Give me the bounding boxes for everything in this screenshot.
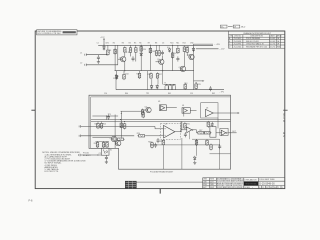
title block approvals text [203,179,215,189]
wire dropper x158 [157,79,159,84]
wire feedback riser [180,122,182,132]
wire dropper x147.4 [146,71,148,90]
capacitor C6 [107,115,110,120]
resistor R34 [96,141,99,148]
wire Q1 collector riser [124,52,126,56]
resistor R16 [150,72,153,79]
wire x184.4 to Q3 [186,53,188,56]
input stub line 3 [80,154,101,156]
node top rail x104 [103,45,104,46]
top-left document return box [37,30,77,35]
resistor R14 below rail [123,73,126,80]
svg-text:25: 25 [262,187,264,189]
wire x130.5 riser [130,45,132,46]
resistor R10 [171,52,174,59]
opamp U3 box [160,105,167,111]
svg-text:CHGD R21 WAS 4.7K: CHGD R21 WAS 4.7K [246,43,265,46]
wire riser x156.5 top [156,45,158,49]
svg-text:T1: T1 [164,82,166,84]
resistor R4 [129,47,132,54]
svg-text:R3: R3 [122,43,124,45]
svg-text:59: 59 [266,187,268,189]
svg-text:APVD: APVD [277,35,283,38]
resistor R19 [195,83,198,90]
resistor R8 [155,50,158,57]
zone tick left border [31,109,35,111]
wire top supply rail [98,44,213,46]
diode CR9 [194,156,197,161]
svg-text:J2: J2 [80,63,82,65]
svg-text:R4: R4 [129,43,131,45]
wire x135.8 riser [135,45,137,46]
svg-text:U5: U5 [165,124,167,126]
wire bias rail y144.9 [150,144,220,146]
node top rail x141.2 [141,45,142,46]
wire CR5 top [116,71,118,75]
resistor R11 [177,47,180,54]
svg-text:Q5: Q5 [145,107,147,109]
svg-text:Q3: Q3 [179,67,181,69]
resistor R33 [206,139,209,146]
svg-text:1: 1 [278,187,279,189]
svg-text:1: 1 [282,187,283,189]
svg-text:9-2-69: 9-2-69 [270,41,275,43]
transistor Q1 [121,57,126,62]
svg-text:59: 59 [234,27,237,29]
opamp U5 main [164,125,175,138]
wire supply stub V+ [103,39,105,46]
connector J2 marks [85,64,87,67]
wire riser x193.5 [193,44,195,90]
svg-text:P/O A2 ATTENUATOR ASSY: P/O A2 ATTENUATOR ASSY [150,171,174,174]
svg-text:PROD RELEASE: PROD RELEASE [246,37,261,40]
svg-text:TP2: TP2 [146,93,149,95]
strip line from stamp to title block [137,181,203,183]
svg-text:Q1: Q1 [119,57,121,59]
drawing border frame [35,31,285,189]
svg-text:R11: R11 [176,43,179,45]
centering tick bottom border [159,189,161,194]
title block outline [203,178,285,189]
revision table [229,31,285,48]
ground below C1 [97,60,100,63]
svg-text:Q2: Q2 [157,59,159,61]
resistor R38 [120,122,123,129]
connector mark input 3 [79,154,81,157]
svg-text:25-11990: 25-11990 [234,44,241,46]
svg-text:25-12344: 25-12344 [234,47,242,49]
svg-text:R27: R27 [199,130,202,132]
opamp U4 box [182,108,190,114]
svg-text:Q4: Q4 [187,54,189,56]
wire drop x219.6 [219,139,221,169]
wire input line 2 [86,64,118,66]
wire branch y139.2 [192,138,220,140]
wire riser x159.2 top [158,45,160,49]
svg-text:CR4: CR4 [190,43,193,45]
wire branch y116 [92,115,118,117]
buffer U8 [220,128,228,135]
node rail x124.6 [124,121,125,122]
resistor R37 [210,144,213,151]
diode CR7 [156,84,159,89]
node y111.2 [121,113,122,114]
svg-text:R15: R15 [136,74,139,76]
svg-text:D-25-5948-00: D-25-5948-00 [259,182,275,185]
inductor bump 2 [169,85,172,90]
wire riser x172.6 [172,45,174,70]
resistor R25 [142,111,145,118]
wire R14 leads [123,71,125,74]
diode CR1 [103,46,106,51]
resistor R28 horizontal [203,132,211,134]
shield box outline outer [89,95,231,169]
svg-text:220: 220 [143,49,146,51]
wire drop x121.3 [120,111,122,138]
resistor R2 [114,48,117,55]
wire U6 output long [213,112,239,114]
svg-text:C15: C15 [190,93,193,95]
svg-text:TP3: TP3 [108,114,111,116]
transistor Q3 [180,66,185,71]
svg-text:CR1: CR1 [105,43,108,45]
node U5 out [180,131,181,132]
transistor Q4 [189,54,194,59]
wire bump feeds [166,84,168,86]
wire mid rail A [91,119,231,121]
svg-text:C3: C3 [162,43,164,45]
wire branch y111.2 [121,110,144,112]
capacitor C11 [105,155,108,160]
resistor R7 [149,47,152,54]
company logo block [244,181,258,185]
svg-text:J1: J1 [80,53,82,55]
svg-text:R17: R17 [159,74,162,76]
wire U3 out [166,107,177,109]
component ref labels upper row [97,43,201,87]
wire dropper x162.5 [162,71,164,85]
wire Q2 base [156,61,159,63]
capacitor C8 [154,143,157,148]
wire riser x115 [114,45,116,70]
node rail x120.5 [120,119,121,120]
ground below C11 [105,161,108,164]
zone tick right border [283,109,287,111]
wire Q5 base [141,109,145,111]
svg-text:- TP1: - TP1 [220,92,224,94]
resistor R44 above A1 [207,121,210,128]
svg-text:HEWLETT·PACKARD: HEWLETT·PACKARD [245,183,258,186]
transistor Q2 [159,59,164,64]
svg-text:C1: C1 [97,43,99,45]
svg-text:R42: R42 [212,93,215,95]
title text underlay smudge [217,178,244,189]
wire R29 top [162,138,164,140]
node input line1 [120,126,121,127]
wire R21 R22 tops [97,121,99,124]
resistor R24 [141,109,144,116]
node bottom rail x124.8 [124,70,125,71]
svg-text:R18: R18 [184,83,187,85]
wire U6 box corner drop [217,118,219,128]
wire drop x115.1 [114,115,116,149]
svg-text:DOC CONTROL CTR 26U: DOC CONTROL CTR 26U [37,33,61,35]
capacitor C7 [157,138,160,143]
opamp U5 input signs [164,128,166,130]
svg-text:R6: R6 [139,43,141,45]
svg-text:R40: R40 [125,93,128,95]
wire drop x196.5 [196,139,198,156]
resistor R30 [151,142,154,149]
wire arrow y80.9 [194,80,204,82]
svg-text:R31: R31 [187,124,190,126]
connector mark input 1 [80,125,82,128]
inductor bump 3 [172,85,175,90]
svg-text:R10: R10 [170,43,173,45]
node rail x150.4 [150,45,151,46]
wire dropper x151.8 [151,79,153,84]
capacitor C13 above A1 [211,122,214,127]
svg-text:C14: C14 [104,93,107,95]
resistor R35 [102,141,105,148]
dashed guard ring around U5 [161,123,181,139]
resistor R23 horizontal [116,138,124,140]
resistor R5 [135,47,138,54]
connector J1 marks [85,53,87,56]
wire output line [229,132,237,134]
svg-text:R21: R21 [95,123,98,125]
opamp U3 [160,106,164,110]
svg-text:25-11038: 25-11038 [234,41,241,43]
svg-text:A1: A1 [211,124,213,127]
wire drop x181.9 [181,122,183,131]
node bottom rail x162.7 [162,70,163,71]
svg-text:6.2: 6.2 [167,47,169,49]
svg-text:CODE IDENT 28480: CODE IDENT 28480 [259,179,275,181]
wire x177.9 [177,45,179,47]
wire drop x106.6 [106,116,108,120]
wire U7 out [193,130,198,133]
svg-text:- +15V: - +15V [215,44,221,46]
svg-text:R19: R19 [198,84,201,86]
wire Q1 base [118,58,121,60]
node input 3 [97,154,98,155]
resistor R32 [195,139,198,146]
wire Q2 emitter [162,64,164,71]
svg-text:R22: R22 [103,123,106,125]
wire input1 bend to U5 [155,126,164,128]
resistor R31 [184,122,187,129]
diode CR2 [140,52,143,57]
svg-text:R26: R26 [137,133,140,135]
svg-text:CHANGE NOTIFICATION LIST: CHANGE NOTIFICATION LIST [243,32,272,35]
capacitor C3 [161,50,164,55]
wire branch y153.8 [210,153,231,155]
svg-text:LOVELAND DIV: LOVELAND DIV [244,179,257,182]
microfilm marks above top border [220,25,227,28]
capacitor C2 [132,56,135,61]
capacitor C4 [176,56,179,61]
resistor R9 [158,50,161,57]
resistor R21 [97,122,100,129]
shield box inner wall [91,97,231,148]
svg-text:Q6: Q6 [110,138,112,140]
node top rail x172.6 [172,45,173,46]
wire feed y44.1 [194,43,214,45]
wire input drop to cap [97,54,99,57]
diode CR4 [192,47,195,52]
wire drop x163.3 low [162,146,164,169]
node input1 [106,54,107,55]
resistor R6 [140,45,143,52]
resistor R26 horizontal input [137,135,145,137]
wire R15 top [139,71,141,73]
wire Q3 collector [183,53,185,67]
svg-text:R7: R7 [148,43,150,45]
svg-text:SCALE: SCALE [244,186,250,189]
capacitor C1 [97,55,100,60]
svg-text:- -15V: - -15V [220,49,226,51]
svg-text:R41: R41 [168,93,171,95]
transistor Q6 [111,136,116,141]
wire Q6 base line [92,137,111,139]
svg-text:48: 48 [270,187,272,189]
resistor R29 [162,139,165,146]
wire sub-bus y84.4 [163,83,175,85]
svg-text:R34: R34 [94,143,97,145]
wire drop x189.7 [189,132,191,140]
input stub line 1 [81,125,156,127]
resistor R15 [138,72,141,79]
svg-text:U3: U3 [158,101,160,103]
svg-text:C11: C11 [99,153,102,155]
svg-text:25-: 25- [221,27,224,29]
ground CR9 [193,161,196,164]
dark label bar in return box [63,31,76,33]
diode CR8 hanging below upper [116,75,119,80]
svg-text:R5: R5 [134,43,136,45]
svg-text:3-9-70: 3-9-70 [270,47,275,49]
resistor R17 [156,72,159,79]
resistor R27 horizontal [197,132,205,134]
wire bottom rail [115,70,194,72]
resistor R39 [123,123,126,130]
transistor Q5 [146,107,151,112]
input stub line 2 [81,135,135,137]
amp U6 box [201,103,218,118]
diode CR6 [150,84,153,89]
wire riser x150.4 [149,45,151,70]
svg-text:R29: R29 [160,141,163,143]
wire riser x117.8 [117,45,119,65]
svg-text:REDRAWN PER STD 100: REDRAWN PER STD 100 [246,46,267,49]
wire U5 out bend [175,130,187,132]
wire drop x181.9 low [181,138,183,169]
resistor R36 [106,141,109,148]
wire Q2 collector [162,56,164,60]
svg-text:R30: R30 [148,142,151,144]
transistor Q7 [116,141,121,146]
wire mid rail B [91,121,231,123]
notes text block [42,152,85,173]
svg-text:FOR TEST PTS.: FOR TEST PTS. [45,171,59,173]
wire input line 1 [86,54,106,56]
wire box to U8 [216,132,222,134]
resistor R1 [107,49,110,56]
svg-text:1-7-70: 1-7-70 [270,44,275,46]
svg-text:R14: R14 [125,73,128,75]
wire R26 to U5 [146,135,160,137]
svg-text:U6: U6 [206,108,208,110]
svg-text:KEW: KEW [210,187,214,189]
middle ref labels [94,93,215,155]
svg-text:BD ASSY: BD ASSY [83,154,91,157]
diode CR5 below rail [115,74,118,79]
wire lower bus [116,89,224,91]
buffer U7 [187,127,192,133]
svg-text:F-6: F-6 [29,199,33,203]
attenuator box A1 [210,127,216,138]
node y116 [106,115,107,116]
wire U4 out [190,109,196,111]
capacitor C9 [184,132,187,137]
svg-text:R2: R2 [113,43,115,45]
svg-text:R16: R16 [148,74,151,76]
wire R1 to rail [107,45,109,49]
relay box K1 [101,148,109,155]
svg-text:U4: U4 [182,105,184,107]
resistor R12 [183,46,186,53]
svg-text:R12: R12 [183,43,186,45]
svg-text:R8: R8 [155,43,157,45]
release stamp block [125,181,137,189]
capacitor C5 at bus end [209,86,212,91]
resistor R22 [100,122,103,129]
svg-text:48-D: 48-D [241,27,246,29]
opamp U4 [183,108,187,112]
capacitor C10 [218,144,221,149]
svg-text:VOLTMETER 025-5948: VOLTMETER 025-5948 [217,187,242,189]
node R19 top [196,82,197,83]
wire riser x141.2 [140,45,142,70]
opamp U6 [206,109,214,116]
wire feed y48.8 [196,48,219,50]
resistor R13 [186,47,189,54]
svg-text:DATE: DATE [270,35,275,38]
svg-text:SEE EO 25-881: SEE EO 25-881 [246,41,259,43]
wire Q1 emitter drop [124,62,126,71]
diode CR3 [168,48,171,53]
title block title text [217,178,244,189]
resistor R3 [124,46,127,53]
connector mark input 2 [80,135,82,138]
wire x116 drop [115,74,117,90]
resistor R18 [184,83,187,90]
wire cluster top [96,140,110,142]
svg-text:K1: K1 [110,150,112,152]
inductor bump 1 [165,85,168,90]
